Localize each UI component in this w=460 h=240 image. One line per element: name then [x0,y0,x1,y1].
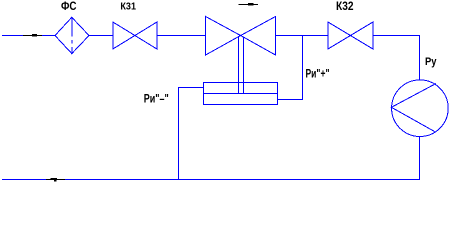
svg-text:К31: К31 [120,1,136,13]
svg-text:Ру: Ру [425,56,437,68]
svg-text:ФС: ФС [61,1,77,13]
svg-text:Ри"–": Ри"–" [144,92,169,106]
svg-text:К32: К32 [336,1,354,13]
svg-text:Ри"+": Ри"+" [306,67,330,81]
